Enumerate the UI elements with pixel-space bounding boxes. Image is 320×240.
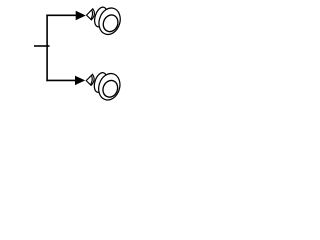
arrowhead bottom [75,76,85,85]
arrowhead top [76,11,86,20]
wire to top speaker [46,14,77,16]
speaker LS1 (top horn) [87,5,124,37]
speaker LS2 (bottom horn) [86,71,123,103]
wire vertical bus [46,15,48,82]
wire to bottom speaker [46,79,76,81]
wire input stub [34,45,50,47]
